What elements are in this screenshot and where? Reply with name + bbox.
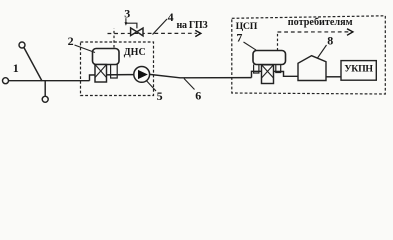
- svg-text:6: 6: [195, 88, 201, 102]
- svg-text:1: 1: [13, 61, 19, 75]
- svg-text:УКПН: УКПН: [344, 63, 373, 74]
- svg-text:на ГПЗ: на ГПЗ: [177, 20, 208, 31]
- svg-text:потребителям: потребителям: [288, 17, 353, 28]
- svg-text:5: 5: [157, 89, 163, 103]
- svg-text:3: 3: [124, 7, 130, 21]
- svg-text:4: 4: [168, 10, 174, 24]
- svg-text:8: 8: [327, 34, 333, 48]
- svg-text:7: 7: [236, 31, 242, 45]
- svg-text:2: 2: [68, 34, 74, 48]
- svg-text:ДНС: ДНС: [124, 47, 146, 58]
